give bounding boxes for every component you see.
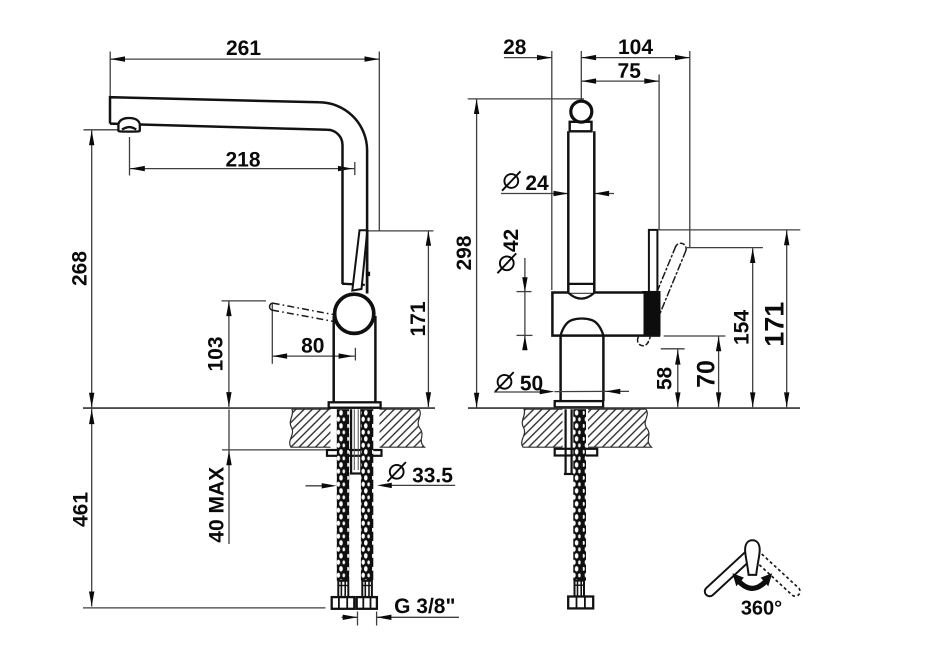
hose nut (front view) (568, 597, 593, 609)
extension line handle bottom (58 dim) (661, 348, 685, 350)
dimension 104 arrows (581, 55, 690, 60)
hose nut left (side view) (332, 597, 355, 609)
handle lever (side view) (352, 230, 367, 290)
svg-text:42: 42 (500, 229, 523, 252)
dimension 28 arrow (537, 55, 552, 60)
extension line handle top (171 right dim) (657, 229, 800, 231)
svg-text:218: 218 (225, 148, 260, 171)
central supply rod (side view) (350, 409, 363, 473)
lower cylinder dome joint (front view) (561, 319, 604, 336)
svg-text:33.5: 33.5 (412, 464, 453, 487)
svg-text:261: 261 (226, 37, 261, 60)
dimension 40 MAX arrow (226, 451, 231, 466)
faucet body column (side view) (334, 316, 376, 402)
extension line handle reach (104 dim) (689, 51, 691, 248)
dimension 154 line (752, 248, 754, 407)
faucet body (front view) (552, 293, 659, 336)
tube-body fillet arc (front view) (568, 293, 594, 299)
spout outer wall overlay (side view) (366, 230, 369, 294)
swivel icon dashed arm (right) (751, 550, 800, 596)
dimension 268 line (91, 131, 93, 408)
svg-text:75: 75 (618, 60, 642, 83)
extension line spout top (298 dim) (468, 98, 584, 100)
dimension 58 arrows (675, 350, 680, 407)
hose end fitting (front view) (575, 581, 585, 597)
dimension 28 line (504, 57, 552, 59)
dimension 70 line (718, 337, 720, 408)
svg-text:80: 80 (301, 334, 324, 357)
dimension G 3/8 extension ticks (358, 612, 377, 626)
braided hose (front view) (573, 409, 586, 580)
svg-text:360°: 360° (741, 597, 782, 619)
hose end fitting right (side view) (362, 581, 372, 597)
hose nut right (side view) (357, 597, 377, 609)
svg-text:268: 268 (68, 251, 91, 286)
svg-text:104: 104 (618, 36, 653, 59)
counter slab hatch (left view) (290, 409, 425, 447)
dimension 171 (left view) arrows (426, 231, 431, 407)
crossbar at body top (side view) (342, 284, 365, 285)
extension line spout axis (28/104/75 dims) (580, 51, 582, 99)
dimension 58 line (677, 350, 679, 408)
extension line, spout tip left (261 dim) (109, 52, 111, 97)
svg-text:24: 24 (525, 172, 549, 195)
base flange (front view) (555, 401, 603, 407)
spout top collar (front view) (570, 122, 592, 132)
ball joint (side view) (335, 294, 374, 333)
dimension 154 arrows (750, 248, 755, 407)
counter top line (front view) (468, 407, 800, 409)
handle end black block overlay (front view) (644, 291, 661, 336)
svg-text:103: 103 (204, 336, 227, 371)
diameter symbol 24 (502, 171, 520, 190)
dimension 70 arrows (716, 337, 721, 408)
extension line body left edge (28 dim) (551, 51, 553, 290)
tube collar line (front view) (568, 283, 594, 285)
dimension 171 (front view) line (786, 231, 788, 408)
dimension diameter 42 (rotated) (517, 258, 533, 349)
dimension 75 line (581, 80, 659, 82)
handle end black block (front view) (642, 291, 661, 335)
aerator at spout tip (118, 118, 139, 132)
extension line below dashed lever (80 dim) (271, 303, 273, 364)
dimension 104 line (581, 57, 690, 59)
dimension 298 line (476, 99, 478, 407)
extension line handle lever left end (103 dim) (222, 300, 267, 302)
mounting stud (front view) (564, 409, 573, 474)
handle set screw tick (side view) (366, 272, 370, 276)
counter slab hatch (front view) (522, 409, 652, 447)
dimension 218 line (130, 162, 355, 175)
svg-text:G 3/8": G 3/8" (394, 595, 455, 618)
counter hole gap (front view) (563, 409, 589, 449)
extension line at hose ends (461 dim bottom) (83, 607, 326, 609)
dimension G 3/8 line and arrows (342, 616, 460, 618)
spout body outline (side view) (110, 97, 367, 293)
extension line under aerator (218 dim) (129, 137, 131, 176)
dashed handle lever (alternate position, front view) (637, 243, 686, 345)
svg-text:298: 298 (453, 235, 476, 270)
dimension 268 arrows (89, 131, 94, 408)
dimension 461 line (91, 409, 93, 607)
braided hose left (side view) (337, 409, 349, 581)
braided hose right (side view) (361, 409, 373, 581)
hose end fitting left (side view) (338, 581, 348, 597)
swivel icon solid arm (left) (705, 550, 754, 596)
under-counter locking bar (front view) (555, 449, 598, 456)
svg-text:171: 171 (407, 301, 430, 336)
lower cylinder (front view) (561, 336, 604, 402)
spout tube (front view) (568, 131, 594, 292)
handle bar (front view) (649, 230, 658, 292)
under-counter locking bar (side view) (327, 450, 382, 456)
dimension 261 arrows (110, 56, 379, 61)
dimension 461 arrows (89, 409, 94, 606)
spout tip circle (front view) (571, 101, 592, 122)
svg-text:154: 154 (731, 310, 754, 345)
svg-text:461: 461 (70, 492, 93, 527)
svg-text:58: 58 (654, 367, 677, 391)
dimension 80 arrows (272, 353, 353, 358)
reference line 40 MAX under counter (222, 410, 330, 545)
swivel icon spout knob (745, 540, 760, 575)
dimension 103 arrows (226, 301, 231, 407)
dimension 261 line (110, 58, 379, 60)
dimension 218 arrows (130, 166, 353, 171)
extension line body bottom (70 dim) (664, 335, 726, 337)
dimension diameter 24 leader (501, 193, 614, 195)
svg-text:50: 50 (520, 372, 543, 395)
dimension 75 arrows (581, 78, 659, 83)
dimension 171 (front view) arrows (784, 231, 789, 408)
counter top line (left view) (83, 407, 435, 409)
extension line lever end (154 dim) (687, 247, 763, 249)
extension line at aerator level (268 dim) (84, 129, 118, 131)
extension line body right edge (75 dim) (658, 75, 660, 230)
base flange (side view) (329, 402, 381, 407)
extension line at handle top (171 left dim) (359, 230, 434, 232)
diameter symbol 42 (rotated) (497, 253, 516, 273)
dimension 80 line (272, 348, 355, 361)
diameter symbol 33.5 (388, 462, 406, 481)
dashed lever (alternate position, side view) (270, 303, 335, 321)
svg-text:171: 171 (760, 302, 790, 347)
svg-text:28: 28 (503, 36, 527, 59)
dimension 298 arrows (474, 99, 479, 407)
counter hole gap (left view) (331, 409, 380, 449)
dimension 171 (left view) line (427, 231, 429, 407)
svg-text:40 MAX: 40 MAX (206, 467, 229, 543)
swivel icon rotation arrow (737, 579, 767, 588)
dimension diameter 33.5 leader (306, 484, 456, 486)
extension line, right of faucet back (261 dim / 171 dim) (378, 52, 380, 231)
diameter symbol 50 (495, 372, 513, 391)
dimension diameter 50 leader (494, 390, 629, 393)
svg-text:70: 70 (692, 360, 720, 388)
dimension 103 line (228, 301, 230, 407)
